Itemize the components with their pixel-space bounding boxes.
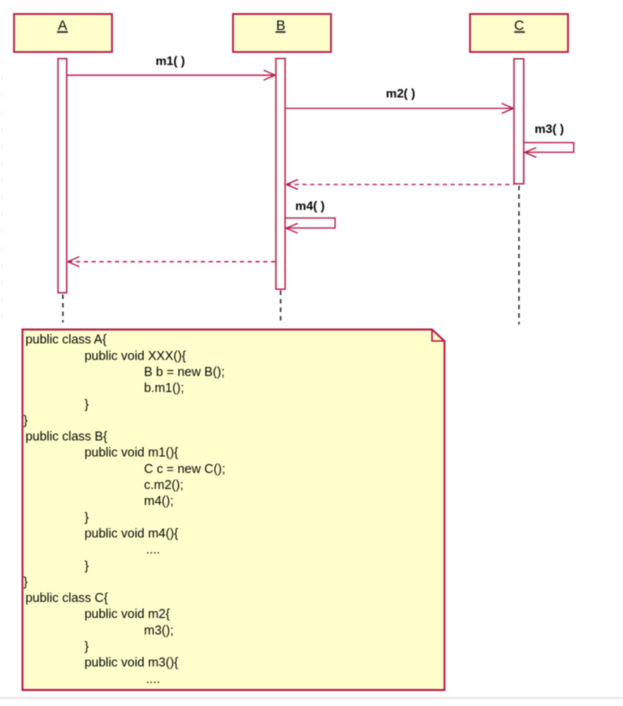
svg-text:public void m4(){: public void m4(){ [85,527,180,541]
svg-text:public class A{: public class A{ [26,333,108,347]
lifeline head box C [470,14,568,52]
lifeline dashed C [518,186,520,325]
svg-text:public void m3(){: public void m3(){ [85,656,180,670]
note code text [24,333,226,686]
self message m3 box on C [524,143,574,158]
svg-text:C: C [514,17,524,33]
svg-text:m2( ): m2( ) [386,86,415,100]
svg-text:B b = new B();: B b = new B(); [144,365,225,379]
svg-text:m4( ): m4( ) [295,199,324,213]
svg-text:b.m1();: b.m1(); [144,381,184,395]
svg-text:m3();: m3(); [144,623,174,637]
svg-text:m4();: m4(); [144,494,174,508]
svg-text:A: A [58,17,68,33]
lifeline head box A [14,14,112,52]
svg-text:c.m2();: c.m2(); [144,478,183,492]
lifeline head box B [233,14,331,52]
svg-text:public void XXX(){: public void XXX(){ [85,349,187,363]
svg-text:....: .... [146,543,160,557]
svg-text:B: B [276,17,285,33]
faint screen-edge artifacts left [1,60,3,330]
dashed return arrow B to A [68,257,276,267]
svg-text:public void m1(){: public void m1(){ [85,446,180,460]
activation bar C [514,59,524,184]
faint screen-edge artifacts bottom [0,697,623,699]
svg-text:C c = new C();: C c = new C(); [144,462,225,476]
svg-text:....: .... [146,672,160,686]
self message m4 box on B [285,218,335,233]
message m2 arrow B to C [286,103,514,113]
lifeline dashed A [62,295,64,323]
message m1 arrow A to B [67,70,275,80]
svg-text:m1( ): m1( ) [156,54,185,68]
dashed return arrow C to B [286,180,514,190]
svg-text:public void m2{: public void m2{ [85,607,171,621]
svg-text:m3( ): m3( ) [535,122,564,136]
lifeline dashed B [280,291,282,324]
activation bar A [58,59,67,293]
activation bar B [276,59,285,290]
svg-text:public class B{: public class B{ [26,430,109,444]
svg-text:public class C{: public class C{ [26,591,109,605]
note box with folded corner [23,330,445,691]
